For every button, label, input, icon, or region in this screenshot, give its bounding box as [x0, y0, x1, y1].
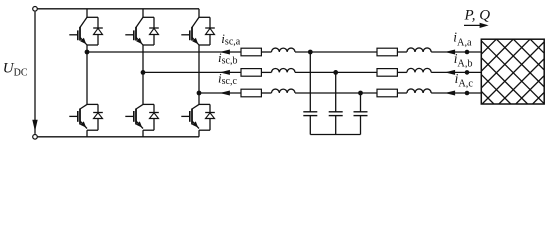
power-flow arrow P,Q (pointing right) — [464, 24, 481, 26]
wire: phase c L1 to R2 (through filter tap) — [295, 92, 377, 94]
wire: phase c from leg to converter-side resistor — [199, 92, 241, 94]
wire: DC+ top rail — [37, 8, 199, 10]
wire: capacitor Cc lower lead — [360, 116, 362, 135]
wire: leg b upper emitter lead to phase node — [142, 45, 144, 72]
node phase b (leg midpoint junction) — [141, 70, 146, 75]
wire: phase b L2 to grid — [431, 71, 481, 73]
current arrow i_A,a (pointing left) — [445, 50, 455, 55]
wire: phase c R2 to L2 — [397, 92, 407, 94]
diode D1 (antiparallel) — [93, 17, 103, 45]
wire: DC- bottom rail — [37, 136, 199, 138]
wire: leg b collector lead from DC+ rail — [142, 9, 144, 17]
svg-text:P, Q: P, Q — [464, 7, 491, 23]
node: PCC phase c — [465, 91, 470, 96]
wire: capacitor branch phase a vertical — [309, 52, 311, 112]
wire: phase b R to L — [261, 71, 271, 73]
wire: leg a collector lead from DC+ rail — [86, 9, 88, 17]
DC positive terminal — [33, 7, 38, 12]
diode D5 (antiparallel) — [205, 17, 215, 45]
wire: phase a R to L — [261, 51, 271, 53]
node: PCC phase b — [465, 70, 470, 75]
capacitor Cc — [354, 111, 368, 113]
current arrow i_sc,c (pointing left) — [220, 91, 230, 96]
wire: phase a L1 to R2 (through filter tap) — [295, 51, 377, 53]
voltage arrow U_DC (down) — [32, 120, 37, 132]
node: PCC phase a — [465, 50, 470, 55]
wire: leg c midsection down to lower IGBT — [198, 93, 200, 104]
wire: capacitor branch phase c vertical — [360, 93, 362, 112]
inductor L2b (grid-side) — [407, 68, 431, 72]
wire: leg c collector lead from DC+ rail — [198, 9, 200, 17]
node: filter-capacitor tap phase c — [358, 91, 363, 96]
wire: capacitor Cb lower lead — [335, 116, 337, 135]
node phase c (leg midpoint junction) — [197, 91, 202, 96]
resistor R1a (converter-side) — [241, 48, 261, 56]
inductor L2a (grid-side) — [407, 48, 431, 52]
wire: phase a R2 to L2 — [397, 51, 407, 53]
transistor Q6 (IGBT) — [181, 104, 210, 130]
wire: phase b R2 to L2 — [397, 71, 407, 73]
wire: phase b from leg to converter-side resistor — [143, 71, 241, 73]
diode D3 (antiparallel) — [149, 17, 159, 45]
transistor Q3 (IGBT) — [125, 17, 154, 45]
transistor Q4 (IGBT) — [125, 104, 154, 130]
current arrow i_sc,b (pointing left) — [220, 70, 230, 75]
wire: capacitor branch phase b vertical — [335, 72, 337, 111]
wire: phase b L1 to R2 (through filter tap) — [295, 71, 377, 73]
current arrow i_A,c (pointing left) — [445, 91, 455, 96]
wire: capacitor star-point bus — [310, 134, 360, 136]
wire: DC link left vertical — [34, 12, 36, 134]
wire: phase c R to L — [261, 92, 271, 94]
resistor R2c (grid-side) — [377, 89, 397, 97]
diode D4 (antiparallel) — [149, 104, 159, 130]
current arrow i_sc,a (pointing left) — [220, 50, 230, 55]
capacitor Cb — [329, 111, 343, 113]
inductor L1b (converter-side) — [272, 68, 295, 72]
diode D6 (antiparallel) — [205, 104, 215, 130]
transistor Q2 (IGBT) — [69, 104, 98, 130]
inductor L1a (converter-side) — [272, 48, 295, 52]
resistor R1b (converter-side) — [241, 69, 261, 77]
transistor Q5 (IGBT) — [181, 17, 210, 45]
wire: leg b lower emitter lead to DC- rail — [142, 130, 144, 137]
wire: phase a from leg to converter-side resistor — [87, 51, 241, 53]
node: filter-capacitor tap phase a — [308, 50, 313, 55]
wire: leg a midsection down to lower IGBT — [86, 52, 88, 104]
wire: leg c upper emitter lead to phase node — [198, 45, 200, 93]
wire: capacitor Ca lower lead — [309, 116, 311, 135]
resistor R1c (converter-side) — [241, 89, 261, 97]
wire: leg b midsection down to lower IGBT — [142, 72, 144, 104]
wire: leg a upper emitter lead to phase node — [86, 45, 88, 52]
inductor L1c (converter-side) — [272, 89, 295, 93]
wire: leg a lower emitter lead to DC- rail — [86, 130, 88, 137]
resistor R2a (grid-side) — [377, 48, 397, 56]
grid block (utility grid, crosshatched) — [412, 39, 550, 104]
wire: phase c L2 to grid — [431, 92, 481, 94]
wire: phase a L2 to grid — [431, 51, 481, 53]
node: filter-capacitor tap phase b — [333, 70, 338, 75]
transistor Q1 (IGBT) — [69, 17, 98, 45]
resistor R2b (grid-side) — [377, 69, 397, 77]
current arrow i_A,b (pointing left) — [445, 70, 455, 75]
node phase a (leg midpoint junction) — [85, 50, 90, 55]
inductor L2c (grid-side) — [407, 89, 431, 93]
wire: leg c lower emitter lead to DC- rail — [198, 130, 200, 137]
diode D2 (antiparallel) — [93, 104, 103, 130]
capacitor Ca — [303, 111, 317, 113]
DC negative terminal — [33, 135, 38, 140]
